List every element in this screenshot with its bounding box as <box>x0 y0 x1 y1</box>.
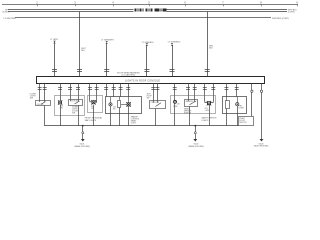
svg-text:LT GRN/BLK: LT GRN/BLK <box>142 42 155 44</box>
lamp M6 <box>236 103 239 106</box>
wire S12 stub <box>128 83 130 96</box>
box R (right label box) <box>239 117 254 126</box>
svg-text:(CONT): (CONT) <box>288 12 295 14</box>
bulb M2 <box>90 100 97 104</box>
wire W4 label <box>142 42 155 44</box>
wire S11 stub <box>120 83 122 96</box>
wire W1 label <box>50 39 58 41</box>
wire S9 stub <box>106 83 108 96</box>
wire (to lamp M3) <box>110 97 112 103</box>
wire W4 vertical <box>146 45 148 77</box>
switch box B label <box>147 93 153 99</box>
wire (to resistor R2) <box>226 97 228 101</box>
bus B+ (double line, right segment) <box>167 10 288 12</box>
connector C2 (ticks wire W2) <box>77 70 82 72</box>
svg-text:DOOR SW: DOOR SW <box>70 100 79 102</box>
wire D11 (bulb M5 down) <box>209 105 211 126</box>
wire D1 (box L to ground bus) <box>44 106 46 126</box>
ground G2 label <box>188 144 204 148</box>
svg-text:3W: 3W <box>113 109 116 111</box>
bulb M1 <box>58 100 62 104</box>
switch box B <box>150 101 166 109</box>
G6 inner label <box>239 106 245 110</box>
bulb M2 label <box>91 106 95 110</box>
wire S14 stub <box>157 83 159 100</box>
wire D4 (bulb M2 down) <box>93 105 95 126</box>
wire S20 stub <box>226 83 228 96</box>
svg-text:(DASH GROUND): (DASH GROUND) <box>188 145 204 148</box>
connector bead on S22 <box>251 90 253 92</box>
ruler tick numbers <box>36 0 298 4</box>
wire D9 (lamp M7 down) <box>174 103 176 125</box>
connector arrows A3 on W4 <box>146 43 149 45</box>
svg-text:LIGHTS: LIGHTS <box>202 120 210 122</box>
bulb M4 <box>126 102 130 106</box>
svg-text:SWITCH: SWITCH <box>239 122 247 124</box>
svg-text:OPEN SW: OPEN SW <box>151 102 160 104</box>
wire D6 (resistor R1 down) <box>119 108 121 126</box>
ground bus wire <box>44 125 238 127</box>
wire (to lamp M6) <box>237 97 239 103</box>
wire W6 label <box>209 45 214 49</box>
svg-text:(DASH GROUND): (DASH GROUND) <box>74 145 90 148</box>
wire W5 label <box>168 41 181 43</box>
lamp M7 (in G5) <box>174 100 177 103</box>
assembly box G6 <box>223 97 247 114</box>
svg-text:IN RUN: IN RUN <box>2 12 9 14</box>
harness box U1 <box>37 77 265 84</box>
G3 inner label <box>113 107 117 111</box>
connector C6 (ticks wire W6) <box>205 70 210 72</box>
switch box C <box>185 99 198 106</box>
wire S7 stub <box>89 83 91 101</box>
connector ticks row under harness <box>38 88 239 90</box>
wire S10 stub <box>113 83 115 96</box>
ground G3 <box>260 139 264 142</box>
wire D13 (lamp M6 down) <box>237 106 239 126</box>
svg-text:MIRROR SW: MIRROR SW <box>186 101 197 103</box>
ruler line <box>2 4 298 6</box>
wire S6 stub <box>78 83 80 99</box>
connector C5 (ticks wire W5) <box>170 70 175 72</box>
switch box A label <box>72 106 78 114</box>
switch box A <box>69 99 83 105</box>
G5 bottom label <box>202 117 217 122</box>
connector arrows A2 on W3 <box>105 41 108 43</box>
wire S22 stub (to box R) <box>251 83 253 116</box>
svg-text:LT GRN/WHT: LT GRN/WHT <box>101 39 114 41</box>
G2 bottom label <box>85 117 103 122</box>
wire D5 (lamp M3 down) <box>110 106 112 126</box>
ground G2 <box>193 126 197 142</box>
bulb M5 label <box>205 108 209 112</box>
connector arrows A4 on W5 <box>171 43 174 45</box>
resistor R2 <box>226 101 230 109</box>
svg-text:LT GRN/RED: LT GRN/RED <box>168 41 181 43</box>
node J1 <box>82 125 84 127</box>
switch box C label <box>184 107 192 114</box>
svg-text:MAP LIGHTS: MAP LIGHTS <box>85 119 97 122</box>
G3 bottom label <box>131 115 140 124</box>
svg-text:WHT/RED (CONT): WHT/RED (CONT) <box>272 18 289 20</box>
svg-text:LIGHT: LIGHT <box>131 123 137 125</box>
wire S3 stub <box>60 83 62 101</box>
switch box L label <box>30 93 37 99</box>
wire S21 stub <box>236 83 238 96</box>
wire S15 stub <box>174 83 176 100</box>
wire S19 stub <box>213 83 215 100</box>
svg-text:1.4W: 1.4W <box>205 110 209 112</box>
svg-text:(14 CAVITIES): (14 CAVITIES) <box>122 74 136 77</box>
svg-text:(SIDE GROUND): (SIDE GROUND) <box>254 146 269 148</box>
assembly box G3 <box>106 97 142 114</box>
ground G3 label <box>254 143 269 147</box>
wire W5 vertical <box>172 45 174 77</box>
wire S18 stub <box>204 83 206 100</box>
svg-text:3.4W: 3.4W <box>173 106 177 108</box>
wire W3 vertical <box>106 43 108 77</box>
wire W3 label <box>101 39 114 41</box>
wire (to resistor R1) <box>119 97 121 101</box>
box R label <box>239 118 247 124</box>
svg-text:LIGHT: LIGHT <box>239 108 245 110</box>
bus left label <box>2 9 10 13</box>
wire S13 stub <box>153 83 155 100</box>
lamp M3 <box>109 103 112 106</box>
bus B+ (double line, left segment) <box>8 10 134 12</box>
connector C1 (ticks wire W1) <box>52 70 57 72</box>
connector C4 (ticks wire W4) <box>144 70 149 72</box>
svg-text:C 5 WHT/RED: C 5 WHT/RED <box>3 18 17 20</box>
svg-text:SW: SW <box>30 98 33 100</box>
harness label above box <box>117 72 140 77</box>
node J2 <box>194 125 196 127</box>
wire D8 (box B down) <box>155 109 157 126</box>
wire (to bulb M4) <box>128 97 130 103</box>
dashed box G5 <box>171 96 216 114</box>
bulb M1 label <box>60 106 64 110</box>
connector arrows A1 on W1 <box>53 41 56 43</box>
bulb M5 <box>205 101 214 106</box>
lamp M7 label <box>173 103 180 108</box>
svg-text:SW: SW <box>147 97 150 99</box>
wire D2 (bulb M1 down) <box>60 105 62 126</box>
wire W6 vertical (from bus) <box>207 12 209 77</box>
wire S1 stub <box>39 83 41 100</box>
bus right label <box>288 9 298 13</box>
resistor R1 <box>118 101 121 108</box>
connector bead on S23 <box>260 90 262 92</box>
svg-text:SWITCH: SWITCH <box>184 113 192 115</box>
wire S17 stub <box>194 83 196 99</box>
ruler ticks <box>38 5 298 7</box>
wire W2 vertical (from bus) <box>79 12 81 77</box>
bus label block (inline text on bus) <box>135 9 167 12</box>
wire S23 (to ground G3) <box>261 83 263 139</box>
wire D12 (resistor R2 down) <box>226 109 228 126</box>
wire D3 (box A down) <box>78 105 80 125</box>
wire (row3 horizontal) <box>15 17 271 19</box>
ground G1 <box>81 126 85 142</box>
dashed box G1 <box>55 96 85 116</box>
svg-text:ON-OFF: ON-OFF <box>37 104 45 106</box>
wire W1 vertical <box>54 42 56 76</box>
wire S8 stub <box>96 83 98 102</box>
svg-text:SW: SW <box>72 112 75 114</box>
wire S5 stub <box>70 83 72 99</box>
svg-text:LT GRN: LT GRN <box>50 39 58 41</box>
wire D7 (bulb M4 down) <box>128 106 130 126</box>
wire W2 label <box>81 48 86 52</box>
dashed box G2 <box>88 96 103 113</box>
svg-text:LIGHTS IN ROOF CONSOLE: LIGHTS IN ROOF CONSOLE <box>125 80 160 83</box>
wire S16 stub <box>188 83 190 99</box>
wire (resistor R1 to bulb M4) <box>121 104 127 106</box>
wire S2 stub <box>44 83 46 100</box>
switch box L <box>36 100 51 105</box>
wire D10 (box C down) <box>189 106 191 126</box>
ground G1 label <box>74 144 90 148</box>
connector C3 (ticks wire W3) <box>104 70 109 72</box>
